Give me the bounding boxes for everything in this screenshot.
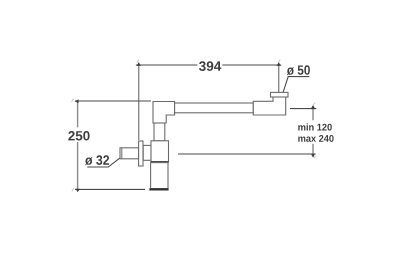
dimension 394 left arrow xyxy=(137,62,141,66)
diameter 50 flange xyxy=(271,92,289,97)
corner tick 394 right xyxy=(278,60,280,62)
min-max top arrow xyxy=(311,105,316,109)
dimension 250 top arrow xyxy=(75,99,79,103)
lower pipe bottom rim xyxy=(149,188,168,190)
diameter 32 label xyxy=(85,155,109,165)
nut between flange and tee xyxy=(143,145,151,160)
diameter 32 inlet pipe xyxy=(120,148,139,159)
horizontal pipe xyxy=(175,103,254,113)
tee bottom edge xyxy=(151,161,169,163)
corner tick 250 top xyxy=(72,99,74,102)
tee body xyxy=(151,141,169,162)
diameter 32 leader underline xyxy=(87,158,119,167)
vertical pipe below elbow xyxy=(154,123,165,141)
diameter 32 flange xyxy=(139,141,143,166)
dimension 250 bottom arrow xyxy=(75,189,80,192)
diameter 50 label xyxy=(287,65,310,75)
corner tick min-max top xyxy=(313,103,315,105)
dimension 394 left extension line xyxy=(138,63,140,141)
elbow at top left of trap xyxy=(153,102,175,124)
dimension 250 top extension line xyxy=(75,100,151,102)
label min 120 xyxy=(298,123,332,130)
dimension 250 line xyxy=(77,101,79,189)
dimension 250 bottom extension line xyxy=(75,188,145,190)
dimension 394 line xyxy=(136,64,281,66)
corner tick 250 bottom xyxy=(72,188,74,191)
dimension 250 label xyxy=(68,131,89,141)
corner tick min-max bottom xyxy=(314,156,316,158)
min-max top extension line xyxy=(290,108,316,110)
diameter 50 leader underline xyxy=(283,77,309,92)
dimension 394 label xyxy=(199,61,221,71)
lower outlet pipe xyxy=(151,163,168,189)
dimension 394 right extension line xyxy=(278,63,280,93)
label max 240 xyxy=(298,135,333,142)
corner tick 394 left xyxy=(137,60,139,63)
dimension 394 right arrow xyxy=(277,62,281,66)
inlet pipe end cap line xyxy=(121,148,123,159)
wall outlet body xyxy=(253,97,285,115)
min-max bottom arrow xyxy=(311,154,316,158)
min-max dimension line xyxy=(312,109,314,154)
min-max bottom extension line xyxy=(178,153,316,155)
